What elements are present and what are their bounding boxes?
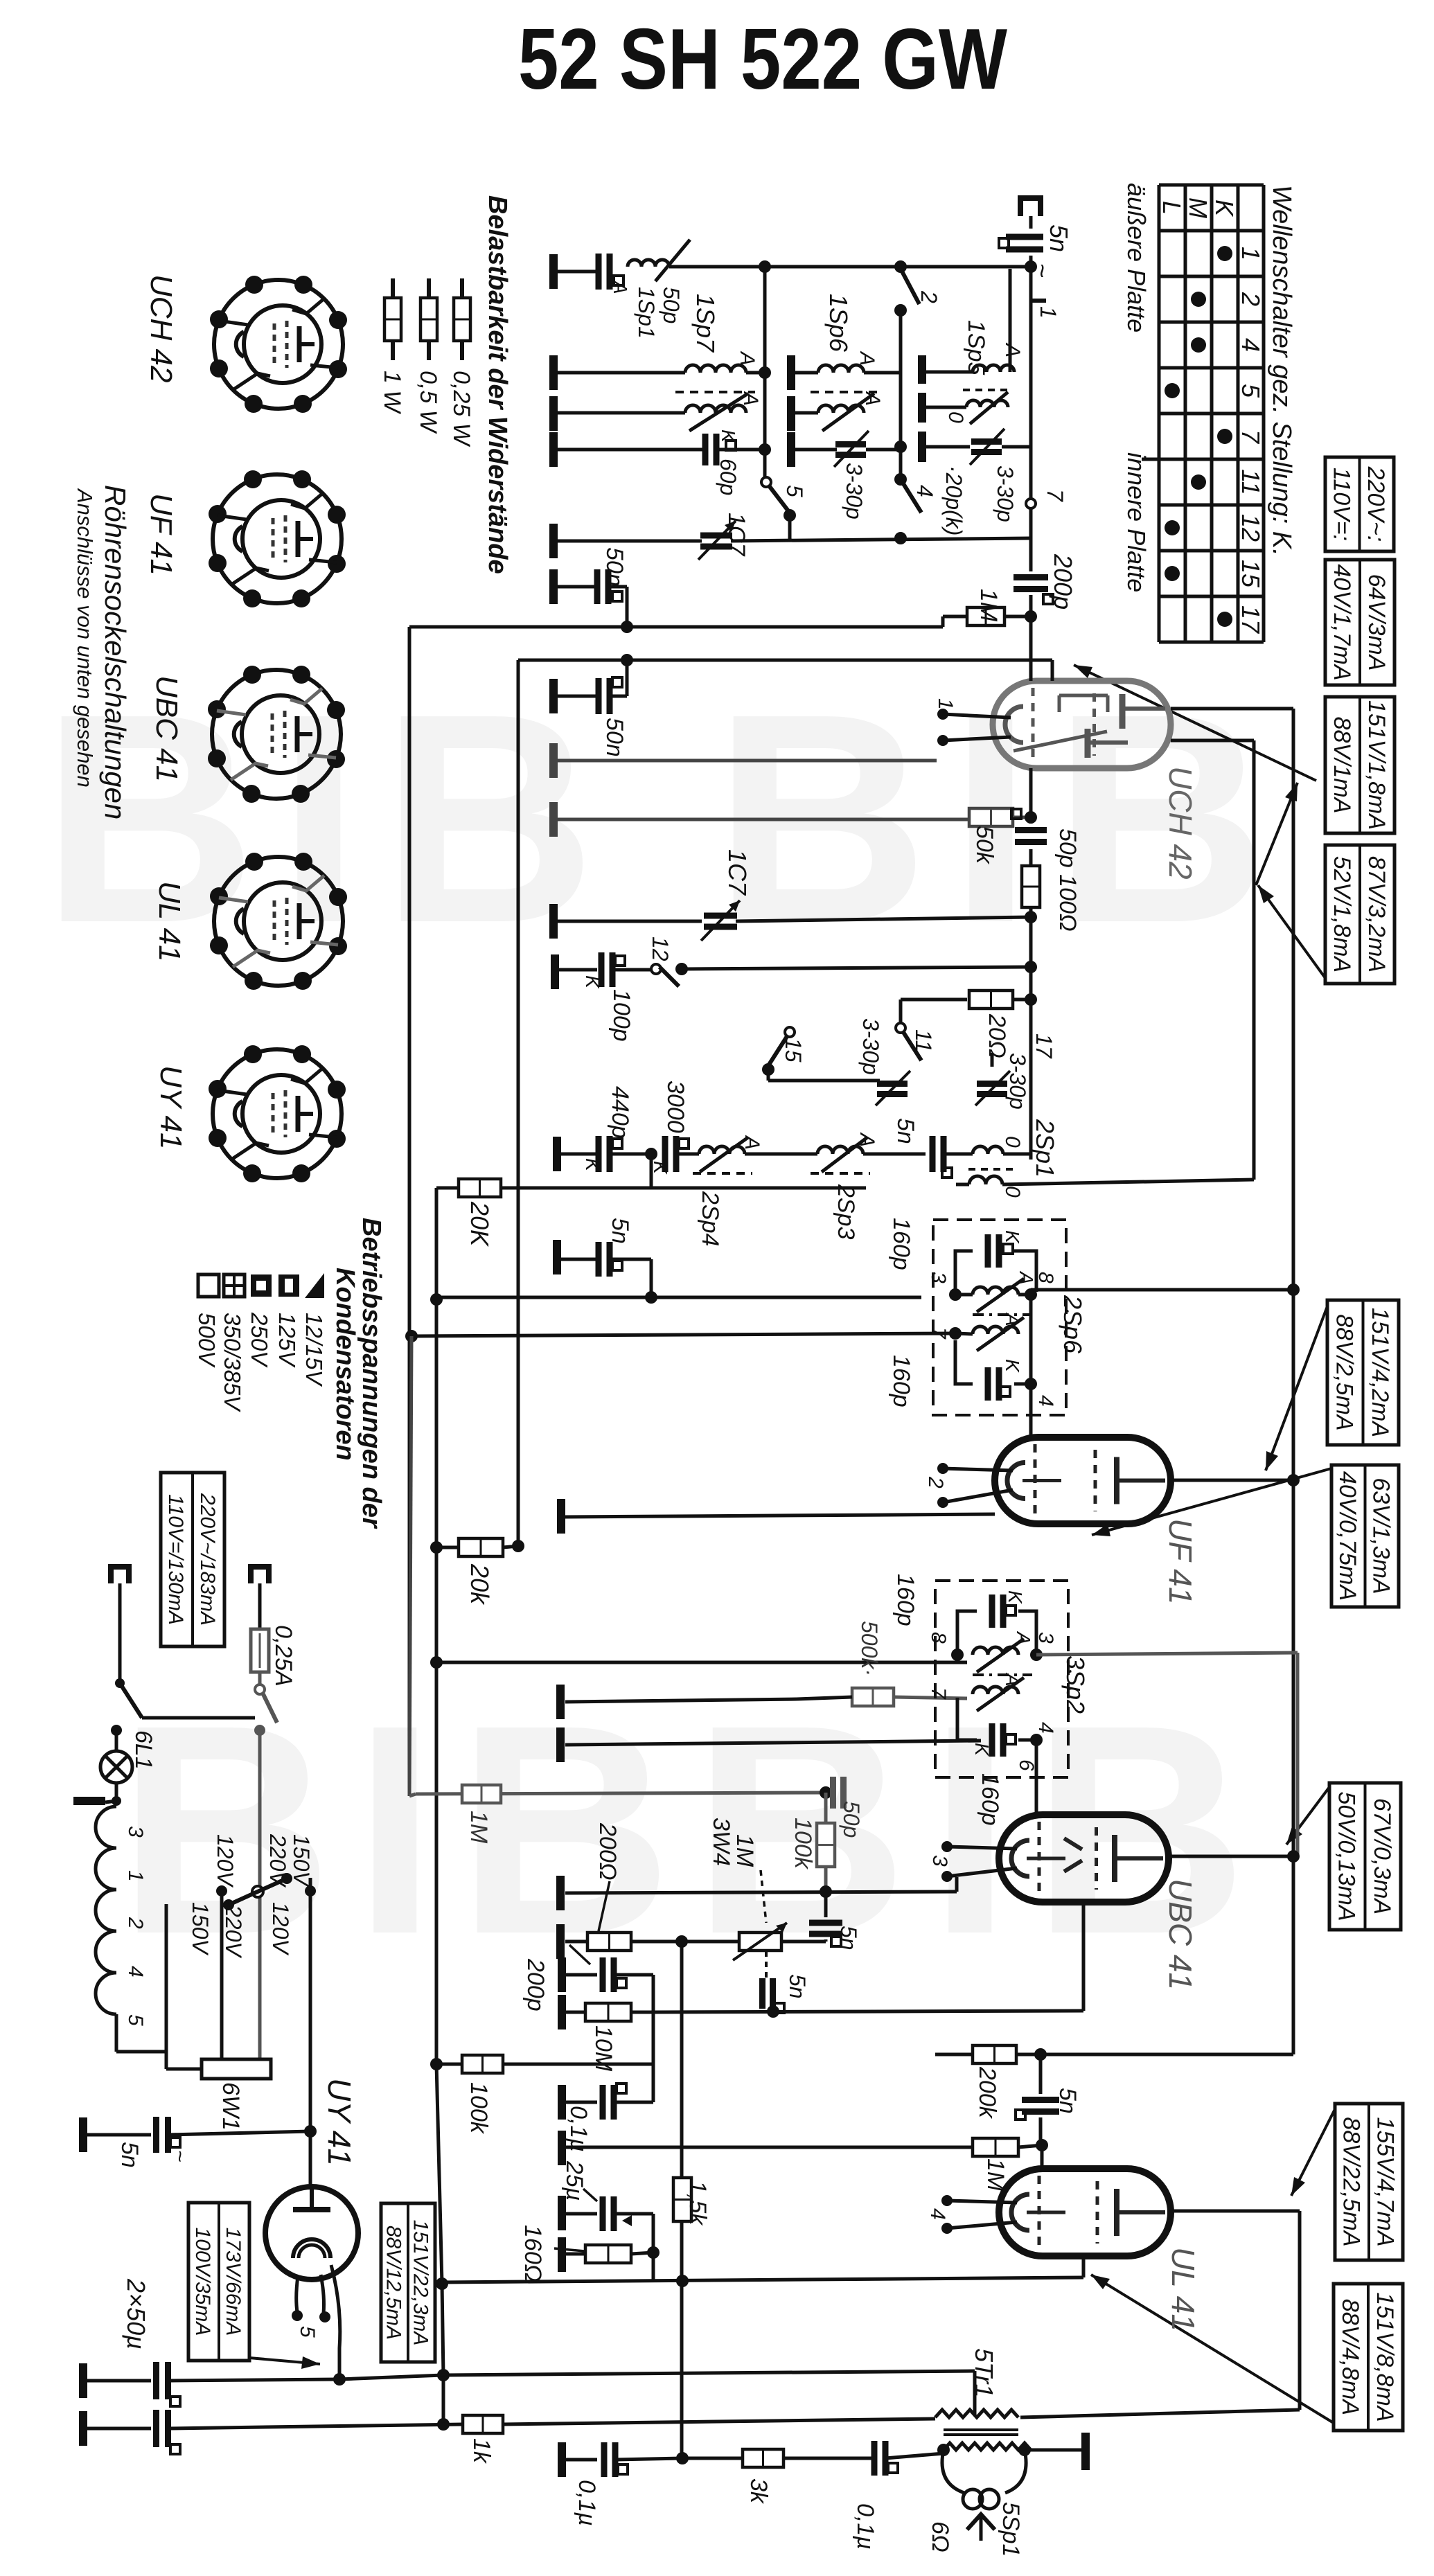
- svg-text:60p: 60p: [716, 459, 741, 495]
- ground T-bars 1Sp6 column: [787, 355, 795, 390]
- coil 2Sp6 secondary: [973, 1326, 1018, 1334]
- box 173V/100V UY41: [188, 2203, 249, 2361]
- box 151V/22,3mA left: [381, 2203, 435, 2362]
- svg-text:1 W: 1 W: [379, 371, 405, 414]
- svg-text:110V=/130mA: 110V=/130mA: [164, 1494, 187, 1625]
- svg-text:5n: 5n: [785, 1974, 810, 1999]
- svg-text:äußere Platte: äußere Platte: [1122, 183, 1151, 332]
- svg-text:160p: 160p: [888, 1355, 914, 1407]
- resistor 500k gray: [852, 1688, 894, 1706]
- svg-text:2: 2: [124, 1917, 147, 1929]
- coil 3Sp2 primary: [973, 1647, 1018, 1655]
- svg-text:8: 8: [927, 1632, 950, 1644]
- svg-text:UF 41: UF 41: [1162, 1518, 1198, 1604]
- svg-text:0,25A: 0,25A: [270, 1625, 296, 1687]
- UBC41 grid from can: [1036, 1655, 1037, 1740]
- resistor 1,5k: [673, 2178, 691, 2221]
- box 64V/40V: [1325, 560, 1395, 685]
- wire 3Sp2 pin8: [436, 1661, 967, 1664]
- svg-text:5n: 5n: [1054, 2088, 1081, 2114]
- svg-text:5n: 5n: [836, 1926, 861, 1951]
- svg-text:A: A: [739, 391, 762, 406]
- capacitor 0,1u cathode: [558, 2442, 566, 2477]
- svg-text:UCH 42: UCH 42: [144, 274, 178, 383]
- box 220V/110V mains: [1325, 457, 1394, 551]
- svg-text:0,1µ: 0,1µ: [574, 2480, 600, 2526]
- svg-text:4: 4: [912, 485, 937, 497]
- svg-text:3-30p: 3-30p: [842, 463, 867, 519]
- UL41 cathode: [1082, 2256, 1086, 2277]
- tube UCH42 pins: [937, 709, 948, 720]
- resistor 6W1: [202, 2059, 271, 2079]
- svg-text:1,5k: 1,5k: [684, 2180, 711, 2226]
- svg-text:K: K: [582, 975, 603, 989]
- svg-text:160p: 160p: [888, 1218, 914, 1270]
- svg-text:350/385V: 350/385V: [220, 1313, 245, 1412]
- UY41 anode: [293, 2207, 330, 2212]
- svg-text:0: 0: [1001, 1136, 1024, 1148]
- tube socket UL41: [214, 857, 343, 986]
- IF transformer 3Sp2 box: [935, 1581, 1068, 1777]
- svg-text:17: 17: [1237, 605, 1265, 634]
- capacitor 5n mains: [79, 2117, 87, 2152]
- pointer arrow to UL41 cathode: [1091, 2275, 1334, 2423]
- box 220V~/183mA mains: [161, 1473, 224, 1646]
- capacitor 100p: [551, 954, 559, 989]
- tube UL41 envelope: [999, 2169, 1171, 2256]
- svg-text:8: 8: [1034, 1272, 1057, 1283]
- resistor 1M gray: [462, 1785, 501, 1803]
- svg-text:A: A: [1002, 1672, 1023, 1687]
- svg-text:5n: 5n: [607, 1218, 633, 1244]
- svg-text:M: M: [1184, 197, 1212, 218]
- grid stopper vertical: [680, 1942, 684, 2458]
- svg-text:15: 15: [1237, 560, 1265, 588]
- svg-text:25µ: 25µ: [561, 2160, 587, 2201]
- svg-text:7: 7: [927, 1687, 950, 1700]
- coil 1Sp1: [628, 260, 669, 267]
- tube socket UBC41: [212, 670, 341, 799]
- mains plug terminal A: [111, 1567, 129, 1583]
- coil 2Sp1 secondary: [968, 1168, 1013, 1171]
- legend resistor 1 W: [391, 278, 395, 298]
- transformer core: [944, 2428, 1018, 2431]
- svg-text:5n: 5n: [892, 1118, 919, 1144]
- svg-text:3-30p: 3-30p: [858, 1018, 883, 1075]
- svg-text:1: 1: [124, 1870, 147, 1882]
- svg-text:A: A: [861, 391, 884, 406]
- lamp 6L1: [111, 1725, 122, 1736]
- svg-text:500k·: 500k·: [857, 1621, 882, 1676]
- capacitor 5n coupling: [1039, 2054, 1043, 2094]
- resistor 3k: [682, 2457, 743, 2460]
- capacitor 50n first: [554, 585, 594, 589]
- svg-text:UL 41: UL 41: [1165, 2247, 1201, 2331]
- wire 3Sp2 pin3 to grid: [1036, 1653, 1298, 1655]
- svg-text:2Sp1: 2Sp1: [1031, 1119, 1059, 1178]
- svg-text:6L1: 6L1: [130, 1730, 157, 1770]
- diode plates UBC41: [1064, 1838, 1082, 1872]
- svg-text:6: 6: [1015, 1759, 1038, 1771]
- svg-text:UL 41: UL 41: [152, 881, 186, 962]
- capacitor 25u: [558, 2196, 566, 2230]
- box 155V/88V UL41: [1335, 2104, 1403, 2260]
- svg-text:1C7: 1C7: [723, 849, 752, 896]
- svg-text:120V: 120V: [213, 1834, 238, 1887]
- wire UCH42 lower anode: [1171, 739, 1254, 743]
- svg-text:A: A: [1016, 1270, 1037, 1285]
- svg-text:220V: 220V: [221, 1904, 246, 1958]
- svg-text:160p: 160p: [977, 1773, 1003, 1826]
- pointer arrow to UF41 cathode: [1092, 1468, 1331, 1535]
- svg-text:155V/4,7mA: 155V/4,7mA: [1372, 2117, 1398, 2246]
- fuse switch: [255, 1685, 265, 1694]
- switch 5: [766, 482, 789, 512]
- svg-text:7: 7: [927, 1327, 950, 1340]
- legend cap symbol 500V: [198, 1274, 219, 1297]
- svg-text:200k: 200k: [974, 2066, 1000, 2120]
- pointer arrow to UF41: [1266, 1306, 1327, 1471]
- svg-text:220V~:: 220V~:: [1363, 466, 1389, 542]
- pointer arrow to UL41 anode: [1291, 2109, 1335, 2196]
- svg-text:4: 4: [926, 2208, 949, 2220]
- svg-text:2Sp3: 2Sp3: [833, 1184, 859, 1239]
- switch 12: [651, 964, 661, 974]
- pointer arrow from box 87V: [1258, 885, 1325, 978]
- svg-text:Kondensatoren: Kondensatoren: [330, 1268, 360, 1461]
- svg-text:Anschlüsse von unten gesehen: Anschlüsse von unten gesehen: [73, 488, 97, 788]
- svg-text:UY 41: UY 41: [321, 2078, 357, 2166]
- coil 3Sp2 secondary: [973, 1687, 1018, 1694]
- svg-text:K: K: [971, 1743, 993, 1757]
- svg-text:100p: 100p: [608, 989, 635, 1042]
- svg-text:17: 17: [1032, 1033, 1056, 1059]
- coil 2Sp1: [973, 1146, 1003, 1154]
- svg-text:120V: 120V: [268, 1902, 293, 1955]
- svg-text:2: 2: [924, 1476, 947, 1489]
- big loop rectangle: [409, 625, 943, 629]
- svg-text:5: 5: [296, 2326, 319, 2338]
- svg-text:K: K: [650, 1161, 671, 1175]
- svg-text:50k: 50k: [971, 826, 998, 865]
- svg-text:3k: 3k: [745, 2478, 772, 2505]
- svg-text:3Sp2: 3Sp2: [1061, 1655, 1090, 1714]
- svg-text:Belastbarkeit der Widerstände: Belastbarkeit der Widerstände: [483, 195, 512, 574]
- svg-text:7: 7: [1043, 489, 1068, 502]
- grid wire gray pair: [549, 743, 558, 778]
- legend cap symbol 12/15V: [305, 1273, 324, 1298]
- ground T-bar speaker: [1025, 2449, 1082, 2452]
- svg-text:0,1µ: 0,1µ: [852, 2503, 878, 2550]
- svg-text:1C7: 1C7: [723, 513, 750, 556]
- svg-text:1Sp1: 1Sp1: [634, 287, 659, 339]
- switch 4: [894, 473, 907, 486]
- svg-text:440p: 440p: [607, 1086, 633, 1139]
- UBC41 anode: [1169, 1855, 1293, 1858]
- svg-text:A: A: [856, 350, 878, 366]
- capacitor 160p 3Sp2 bottom: [989, 1723, 995, 1757]
- capacitor 1Sp1 50p: [554, 270, 596, 274]
- svg-text:151V/4,2mA: 151V/4,2mA: [1367, 1308, 1393, 1437]
- UBC41 cathode: [955, 1877, 959, 1892]
- svg-text:100k: 100k: [790, 1818, 816, 1870]
- svg-text:63V/1,3mA: 63V/1,3mA: [1368, 1477, 1395, 1594]
- switch 11: [899, 1000, 903, 1027]
- resistor 20K: [459, 1179, 501, 1197]
- svg-text:220V~/183mA: 220V~/183mA: [196, 1493, 219, 1626]
- legend resistor 0,5 W: [427, 278, 431, 298]
- capacitor 50p 100ohm: [1029, 768, 1033, 824]
- capacitor K 60p: [554, 448, 702, 452]
- bus mid A: [436, 1296, 921, 1299]
- svg-text:3000: 3000: [662, 1081, 689, 1133]
- capacitor 200p: [1013, 574, 1048, 580]
- svg-text:160Ω: 160Ω: [520, 2225, 546, 2282]
- UY41 pins: [296, 2276, 298, 2312]
- svg-text:3: 3: [124, 1826, 147, 1838]
- svg-text:5Sp1: 5Sp1: [998, 2502, 1024, 2557]
- svg-text:UBC 41: UBC 41: [150, 675, 184, 782]
- legend cap symbol 350/385V: [224, 1274, 245, 1297]
- svg-text:0,1µ: 0,1µ: [565, 2106, 592, 2152]
- box 63V/40V: [1331, 1465, 1399, 1607]
- feedback wire UF41 anode: [1031, 1288, 1293, 1292]
- coil 1Sp7 secondary: [554, 411, 685, 415]
- svg-text:K: K: [1002, 1230, 1023, 1244]
- resistor 100k lower: [436, 2063, 462, 2066]
- tube socket UY41: [213, 1049, 342, 1178]
- pointer arrow to UCH42 top: [1074, 665, 1316, 781]
- capacitor 0,1u top: [558, 2085, 566, 2120]
- svg-text:4: 4: [1034, 1395, 1057, 1407]
- legend cap symbol 250V: [251, 1274, 272, 1297]
- box 67V/50V UBC41: [1329, 1783, 1401, 1930]
- svg-text:200p: 200p: [522, 1958, 549, 2011]
- resistor 20 ohm: [901, 998, 967, 1002]
- legend resistor 0,25 W: [460, 278, 464, 298]
- resistor 160 ohm: [558, 2237, 566, 2272]
- capacitor 50n second: [549, 679, 558, 713]
- capacitor 440p: [553, 1137, 561, 1171]
- svg-text:5: 5: [782, 485, 807, 497]
- resistor 1k: [463, 2415, 503, 2433]
- svg-text:100k: 100k: [466, 2082, 492, 2135]
- rail x630 lower: [435, 1547, 439, 2064]
- voltage selector: [165, 1904, 168, 2052]
- bus 20K row: [436, 1187, 866, 1190]
- resistor 20k second: [436, 1546, 459, 1549]
- svg-text:5Tr1: 5Tr1: [970, 2348, 998, 2397]
- UL41 anode path: [1171, 2210, 1300, 2213]
- resistor 100k gray: [824, 1793, 828, 1823]
- svg-text:Wellenschalter gez. Stellung:: Wellenschalter gez. Stellung: K.: [1267, 185, 1296, 556]
- svg-text:1Sp6: 1Sp6: [824, 294, 853, 353]
- svg-text:4: 4: [1034, 1722, 1057, 1734]
- speaker 5Sp1: [942, 2450, 964, 2493]
- tube UF41 pins: [937, 1463, 948, 1474]
- svg-text:151V/22,3mA: 151V/22,3mA: [409, 2220, 432, 2346]
- svg-text:3: 3: [928, 1855, 951, 1867]
- svg-text:50n: 50n: [601, 547, 628, 587]
- core 2Sp6: [973, 1313, 1032, 1316]
- box 87V/52V: [1325, 845, 1395, 984]
- trimmer 1C7 top: [554, 540, 702, 543]
- svg-text:·20p(k): ·20p(k): [941, 465, 966, 535]
- svg-text:173V/66mA: 173V/66mA: [222, 2228, 245, 2336]
- svg-text:12: 12: [1237, 514, 1265, 542]
- svg-text:K: K: [582, 1158, 603, 1172]
- svg-text:50V/0,13mA: 50V/0,13mA: [1334, 1791, 1360, 1921]
- svg-text:110V=:: 110V=:: [1329, 468, 1355, 541]
- svg-text:~: ~: [168, 2150, 191, 2162]
- svg-text:88V/2,5mA: 88V/2,5mA: [1331, 1314, 1358, 1430]
- wave-switch table grid: [1142, 185, 1264, 642]
- svg-text:3-30p: 3-30p: [1005, 1053, 1030, 1110]
- svg-text:7: 7: [1237, 429, 1265, 445]
- mains plug terminal B: [251, 1567, 269, 1583]
- svg-text:A: A: [1013, 1631, 1034, 1645]
- svg-text:1M: 1M: [466, 1811, 492, 1844]
- svg-text:151V/1,8mA: 151V/1,8mA: [1363, 700, 1390, 830]
- resistor 10M: [558, 1995, 566, 2029]
- trimmer 3-30p RF: [791, 448, 837, 452]
- gray AVC wire: [416, 1793, 826, 1794]
- box 151V/88V UCH42 anode: [1325, 697, 1395, 833]
- svg-text:88V/22,5mA: 88V/22,5mA: [1338, 2117, 1364, 2246]
- svg-text:12/15V: 12/15V: [301, 1313, 327, 1387]
- svg-text:UF 41: UF 41: [144, 493, 178, 576]
- tube socket UCH42: [214, 280, 343, 409]
- bus vertical RF: [763, 267, 767, 479]
- svg-text:64V/3mA: 64V/3mA: [1363, 574, 1390, 671]
- svg-text:5n: 5n: [116, 2142, 143, 2168]
- contact 1: [1031, 299, 1046, 303]
- svg-text:3: 3: [1034, 1632, 1057, 1644]
- svg-text:20K: 20K: [466, 1201, 494, 1247]
- svg-text:500V: 500V: [194, 1313, 220, 1368]
- svg-text:40V/1,7mA: 40V/1,7mA: [1329, 564, 1355, 680]
- svg-text:40V/0,75mA: 40V/0,75mA: [1334, 1471, 1361, 1601]
- capacitor 0,1u speaker: [905, 2458, 944, 2459]
- svg-text:52 SH 522 GW: 52 SH 522 GW: [518, 12, 1007, 107]
- chassis bar lamp: [73, 1797, 105, 1805]
- mains switch: [115, 1678, 125, 1688]
- svg-text:Betriebsspannungen der: Betriebsspannungen der: [357, 1218, 386, 1529]
- trimmer 1C7 mid: [549, 904, 558, 939]
- svg-text:innere Platte: innere Platte: [1122, 452, 1151, 592]
- svg-text:100V/35mA: 100V/35mA: [191, 2228, 214, 2336]
- svg-text:150V: 150V: [188, 1902, 213, 1955]
- IF transformer 2Sp6 box: [933, 1220, 1066, 1415]
- svg-text:1M: 1M: [975, 589, 1002, 622]
- svg-text:A: A: [736, 350, 759, 366]
- svg-text:160p: 160p: [892, 1574, 919, 1626]
- svg-text:L: L: [1158, 201, 1186, 215]
- svg-text:UBC 41: UBC 41: [1162, 1878, 1198, 1990]
- ground T-bars left RF column: [549, 254, 558, 289]
- svg-text:50n: 50n: [601, 718, 628, 757]
- heater chain: [96, 1806, 116, 2014]
- svg-text:5: 5: [1237, 384, 1265, 398]
- svg-text:87V/3,2mA: 87V/3,2mA: [1363, 856, 1390, 972]
- capacitor 160p 3Sp2 top: [989, 1595, 995, 1628]
- svg-text:A: A: [1002, 1312, 1023, 1326]
- capacitor 160p bottom: [985, 1367, 991, 1401]
- svg-text:5: 5: [124, 2014, 147, 2026]
- secondary 5Tr1: [944, 2443, 1031, 2450]
- svg-text:0,25 W: 0,25 W: [448, 371, 475, 447]
- svg-text:151V/8,8mA: 151V/8,8mA: [1372, 2292, 1398, 2422]
- svg-text:50p 100Ω: 50p 100Ω: [1054, 828, 1081, 932]
- pointer arrow to UBC41 anode: [1286, 1787, 1329, 1845]
- svg-text:88V/12,5mA: 88V/12,5mA: [382, 2226, 405, 2340]
- capacitor 160p top: [985, 1234, 991, 1268]
- B+ rail bottom: [436, 2064, 442, 2284]
- core 3Sp2: [973, 1673, 1032, 1676]
- svg-text:3: 3: [927, 1272, 950, 1283]
- tube UCH42 envelope: [993, 681, 1171, 768]
- svg-text:88V/4,8mA: 88V/4,8mA: [1337, 2299, 1363, 2415]
- svg-text:11: 11: [1237, 469, 1265, 495]
- svg-text:15: 15: [781, 1038, 806, 1063]
- svg-text:2: 2: [1237, 292, 1265, 306]
- tube UL41 pins: [941, 2195, 953, 2206]
- svg-text:20Ω: 20Ω: [984, 1013, 1010, 1058]
- svg-text:125V: 125V: [274, 1313, 300, 1368]
- svg-text:250V: 250V: [247, 1312, 272, 1368]
- svg-text:2×50µ: 2×50µ: [122, 2278, 150, 2350]
- tube UF41 envelope: [995, 1437, 1171, 1524]
- svg-text:6Ω: 6Ω: [927, 2521, 953, 2552]
- coil 2Sp4: [699, 1146, 745, 1154]
- capacitor 5n antenna: [1006, 234, 1043, 240]
- capacitor 5n osc: [930, 1136, 936, 1172]
- capacitor 3000: [662, 1136, 669, 1172]
- antenna terminal: [1020, 198, 1041, 216]
- svg-text:1M: 1M: [982, 2158, 1009, 2192]
- coil 2Sp6 primary: [973, 1287, 1018, 1295]
- rail x630: [435, 1188, 439, 1547]
- svg-text:67V/0,3mA: 67V/0,3mA: [1369, 1798, 1395, 1915]
- svg-text:4: 4: [124, 1966, 147, 1978]
- contact 7: [1026, 499, 1036, 508]
- resistor 1M grid: [943, 615, 967, 619]
- svg-text:2Sp6: 2Sp6: [1059, 1295, 1087, 1354]
- resistor 50k: [969, 808, 1013, 826]
- svg-text:K: K: [1004, 1590, 1026, 1604]
- svg-text:0: 0: [944, 411, 967, 423]
- svg-text:50p: 50p: [839, 1801, 864, 1838]
- pointer arrow to box 151V: [1256, 783, 1298, 885]
- coil 1Sp6 secondary: [791, 411, 818, 415]
- capacitor 50p avc: [830, 1777, 836, 1809]
- box 151V/88V UF41: [1327, 1300, 1399, 1445]
- svg-text:11: 11: [911, 1029, 936, 1052]
- main antenna bus: [1029, 256, 1033, 571]
- trimmer 3-30p osc B: [977, 1081, 1007, 1087]
- svg-text:Röhrensockelschaltungen: Röhrensockelschaltungen: [99, 485, 132, 819]
- capacitor 5n det: [809, 1920, 842, 1926]
- box 151V/88V UL41 grid: [1334, 2284, 1403, 2431]
- svg-text:K: K: [1210, 199, 1239, 217]
- capacitor 5n ave: [553, 1240, 561, 1274]
- svg-text:K: K: [1002, 1359, 1023, 1373]
- coil 1Sp5 secondary 0: [918, 393, 926, 423]
- UY41 cathode wire: [331, 2265, 340, 2379]
- resistor 200k: [935, 2053, 973, 2057]
- svg-text:3-30p: 3-30p: [993, 465, 1018, 522]
- svg-text:5n: 5n: [1045, 224, 1073, 252]
